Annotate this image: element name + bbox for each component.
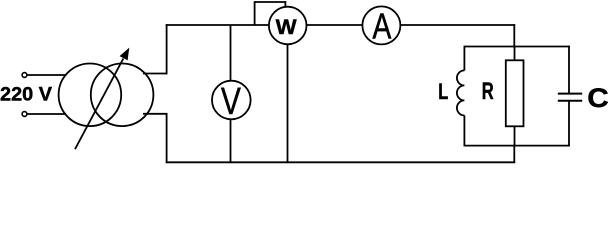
autotransformer T1 [59, 48, 154, 150]
wire R bottom lead [514, 126, 516, 146]
wire corner down to inner top [513, 24, 515, 47]
terminal lower [22, 112, 27, 117]
wire wattmeter bottom lead [287, 44, 289, 163]
wire A to corner [400, 24, 515, 26]
wire top rail [166, 24, 269, 26]
svg-text:C: C [587, 83, 609, 113]
wire W to A [307, 24, 363, 26]
wire lower terminal to transformer [27, 113, 66, 115]
wire C bottom lead [568, 101, 570, 147]
svg-text:R: R [482, 78, 494, 105]
wire inner loop bottom [464, 145, 569, 147]
wire C top lead [568, 46, 570, 94]
inductor L [457, 46, 464, 147]
wire transformer lower output [143, 113, 167, 115]
svg-text:L: L [438, 79, 448, 104]
svg-text:A: A [372, 6, 391, 47]
svg-text:V: V [221, 81, 242, 123]
voltmeter V [212, 81, 251, 123]
wire left rail upper segment [166, 24, 168, 74]
wire R top lead [514, 47, 516, 62]
wire transformer upper output [143, 73, 167, 75]
wire upper terminal to transformer [27, 74, 66, 76]
resistor R [506, 60, 524, 126]
terminal upper [22, 73, 27, 78]
wattmeter current coil loop [255, 2, 286, 25]
svg-text:220 V: 220 V [0, 84, 52, 105]
svg-text:W: W [276, 15, 298, 39]
wire left rail lower segment [166, 113, 168, 163]
wire voltmeter top lead [230, 25, 232, 81]
wire parallel network to bottom rail [513, 145, 515, 163]
wire voltmeter bottom lead [230, 119, 232, 163]
ammeter A [362, 6, 400, 47]
wire bottom rail [166, 161, 515, 163]
wattmeter W [269, 7, 307, 45]
wire inner loop top [464, 46, 569, 48]
capacitor C [558, 94, 582, 101]
